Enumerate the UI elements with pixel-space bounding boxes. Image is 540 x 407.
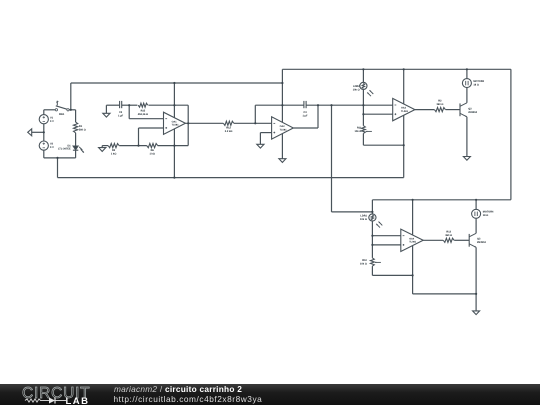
svg-text:TL081: TL081 [401,110,409,113]
svg-text:18 Ω: 18 Ω [473,83,478,86]
svg-text:1 µF: 1 µF [302,114,308,117]
svg-text:360 Ω: 360 Ω [436,103,443,106]
svg-text:2N3904: 2N3904 [468,111,477,114]
svg-text:10k Ω: 10k Ω [360,218,367,221]
svg-text:2N3904: 2N3904 [477,241,486,244]
svg-text:SW1: SW1 [59,113,65,116]
svg-text:9 V: 9 V [50,146,54,149]
svg-text:18 Ω: 18 Ω [483,214,488,217]
svg-text:2.2 kΩ: 2.2 kΩ [225,130,233,133]
svg-text:TL081: TL081 [172,124,180,127]
svg-text:10k Ω: 10k Ω [355,130,362,133]
svg-text:TL081: TL081 [409,241,417,244]
svg-text:560 Ω: 560 Ω [79,128,86,131]
svg-text:1 µF: 1 µF [118,114,124,117]
svg-text:10k Ω: 10k Ω [360,262,367,265]
svg-text:10k Ω: 10k Ω [353,88,360,91]
svg-text:LTL-307EE: LTL-307EE [58,147,71,150]
svg-text:360 Ω: 360 Ω [445,234,452,237]
svg-text:1 kΩ: 1 kΩ [111,152,116,155]
svg-text:9 V: 9 V [50,120,54,123]
svg-text:TL081: TL081 [280,128,288,131]
svg-text:453,16 Ω: 453,16 Ω [138,113,148,116]
svg-text:1 kΩ: 1 kΩ [149,152,154,155]
svg-text:Q2: Q2 [468,107,472,110]
